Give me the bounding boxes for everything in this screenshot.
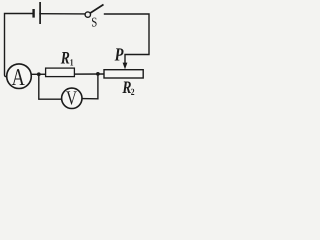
svg-text:1: 1	[70, 58, 74, 68]
svg-text:R: R	[60, 47, 70, 67]
svg-text:V: V	[66, 87, 77, 109]
svg-text:2: 2	[131, 88, 135, 98]
svg-text:A: A	[12, 65, 26, 91]
svg-text:S: S	[91, 14, 97, 29]
svg-text:P: P	[114, 46, 124, 66]
